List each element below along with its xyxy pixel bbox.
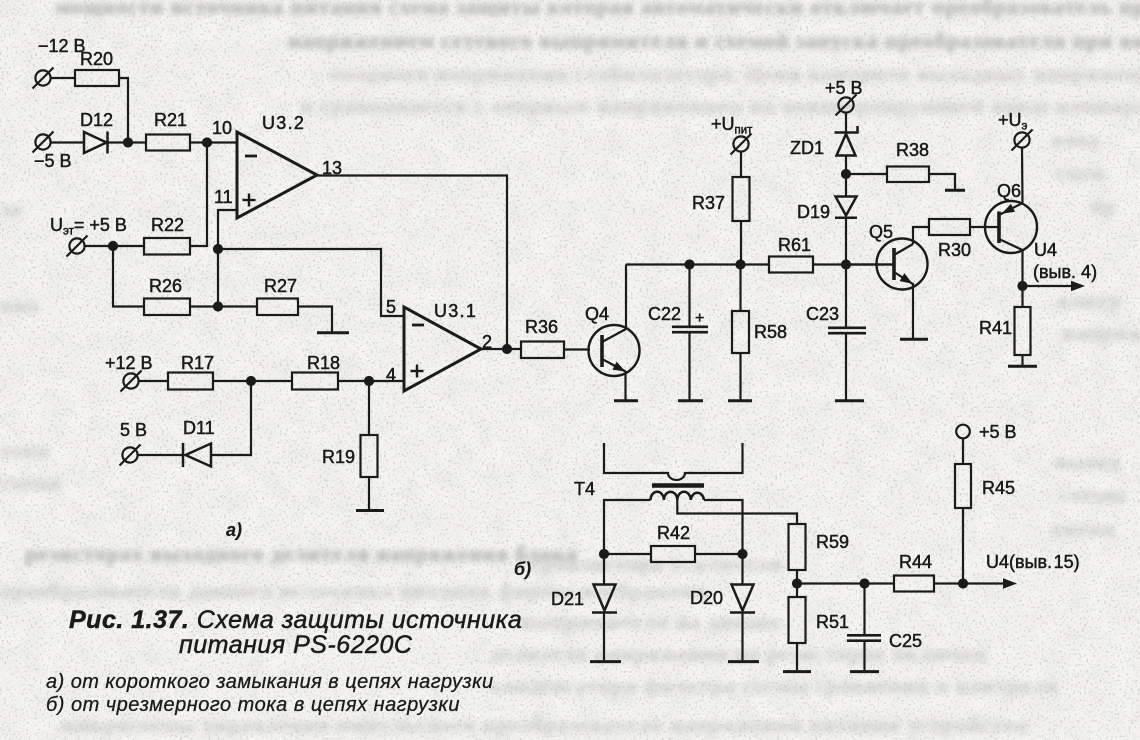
ground Q5 — [900, 338, 928, 341]
svg-text:R20: R20 — [80, 49, 113, 69]
diode D20 — [730, 585, 755, 613]
svg-text:R22: R22 — [151, 215, 184, 235]
svg-text:ZD1: ZD1 — [790, 138, 824, 158]
wire — [739, 353, 741, 400]
svg-text:а) от короткого замыкания в це: а) от короткого замыкания в цепях нагруз… — [46, 671, 494, 693]
ground D20 — [728, 660, 759, 663]
svg-text:б): б) — [514, 559, 531, 579]
terminal -12 В — [33, 68, 54, 89]
ground C23 — [835, 399, 864, 402]
node junction D19/R61 — [842, 261, 850, 269]
svg-text:(выв. 4): (выв. 4) — [1033, 262, 1097, 282]
svg-text:11: 11 — [214, 187, 233, 207]
resistor R27 — [257, 299, 298, 316]
terminal -5 В — [33, 132, 54, 153]
node junction R45/R44 — [959, 580, 967, 588]
wire secondary left lead — [604, 500, 651, 584]
wire — [1021, 147, 1024, 203]
svg-text:R44: R44 — [899, 552, 932, 572]
transformer T4 core — [652, 483, 704, 488]
resistor R30 — [929, 219, 970, 235]
wire — [929, 174, 955, 189]
node junction R17/D11 — [247, 377, 255, 385]
ground R51 — [783, 670, 811, 673]
resistor R17 — [168, 373, 213, 390]
wire Q6 collector down — [1021, 249, 1023, 307]
svg-text:R61: R61 — [778, 235, 811, 255]
wire — [934, 582, 963, 584]
svg-text:U3.2: U3.2 — [262, 113, 305, 133]
terminal +5 В bottom — [956, 425, 970, 439]
svg-text:R37: R37 — [692, 193, 725, 213]
wire U3.1 output — [481, 348, 521, 350]
resistor R51 — [789, 597, 806, 643]
node junction C22 — [686, 261, 694, 269]
wire — [970, 226, 999, 228]
wire — [797, 582, 894, 584]
wire rail left — [626, 263, 769, 265]
resistor R18 — [292, 373, 338, 390]
svg-text:2: 2 — [482, 332, 492, 352]
svg-text:R26: R26 — [149, 276, 182, 296]
wire — [368, 477, 370, 509]
transistor Q6 — [985, 201, 1037, 253]
wire — [962, 508, 964, 584]
node junction ZD1/D19/R38 — [842, 170, 850, 178]
op-amp U3.1 — [404, 307, 481, 391]
svg-text:D21: D21 — [551, 589, 584, 609]
op-amp U3.2 — [237, 132, 317, 218]
ground R41 — [1008, 365, 1037, 368]
node junction Uэт — [109, 242, 117, 250]
svg-text:C23: C23 — [806, 304, 839, 324]
wire — [564, 348, 590, 350]
svg-text:R21: R21 — [154, 110, 187, 130]
wire — [298, 307, 332, 332]
svg-text:питания PS-6220C: питания PS-6220C — [179, 631, 413, 659]
resistor R58 — [732, 311, 749, 353]
wire feedback to R22 — [190, 143, 207, 247]
wire — [845, 156, 847, 197]
resistor R36 — [521, 342, 564, 359]
wire — [1021, 355, 1023, 365]
wire — [845, 218, 847, 265]
resistor R19 — [361, 435, 378, 477]
wire — [796, 570, 798, 597]
resistor R59 — [789, 524, 806, 570]
diode D12 — [84, 132, 108, 154]
wire R19 top — [368, 381, 370, 435]
node junction D12/R20 — [124, 139, 132, 147]
capacitor C25 — [847, 584, 881, 671]
ground Q4 — [614, 399, 638, 402]
svg-text:D19: D19 — [797, 202, 830, 222]
svg-text:а): а) — [226, 520, 242, 540]
wire — [604, 553, 651, 555]
wire arrow to U4 pin 15 — [963, 582, 1006, 584]
svg-text:R27: R27 — [264, 276, 297, 296]
svg-text:R41: R41 — [979, 318, 1012, 338]
wire — [50, 77, 75, 79]
svg-text:R18: R18 — [307, 353, 340, 373]
svg-text:+5 В: +5 В — [979, 422, 1017, 442]
ground D21 — [590, 660, 621, 663]
svg-text:R58: R58 — [754, 322, 787, 342]
svg-text:−5 В: −5 В — [34, 151, 72, 171]
svg-text:R59: R59 — [816, 532, 849, 552]
wire — [190, 141, 237, 143]
node junction C25 — [861, 580, 869, 588]
svg-text:C22: C22 — [648, 304, 681, 324]
transformer T4 secondary — [651, 492, 705, 500]
node junction R42 right — [739, 550, 747, 558]
diode D19 — [835, 197, 857, 218]
wire U3.2 output — [317, 176, 507, 350]
ground R38 — [945, 189, 965, 192]
svg-text:Uэт= +5 В: Uэт= +5 В — [50, 215, 127, 238]
ground R58 — [728, 399, 752, 402]
svg-text:Q5: Q5 — [869, 222, 893, 242]
wire to R38 — [846, 173, 887, 175]
transformer T4 primary — [604, 443, 743, 480]
wire — [119, 78, 128, 143]
node junction pin11/pin5 — [214, 245, 222, 253]
node junction output — [503, 345, 511, 353]
svg-text:5: 5 — [386, 297, 396, 317]
resistor R22 — [144, 238, 190, 255]
terminal +Uэ — [1012, 130, 1033, 151]
svg-text:−12 В: −12 В — [38, 36, 86, 56]
resistor R21 — [146, 135, 190, 151]
terminal +5 В top — [836, 95, 857, 116]
resistor R26 — [144, 299, 190, 316]
wire — [739, 265, 741, 312]
svg-text:Q6: Q6 — [997, 181, 1021, 201]
wire — [108, 141, 147, 143]
capacitor C23 — [828, 265, 866, 400]
node junction R59/R51 — [793, 580, 801, 588]
svg-text:Q4: Q4 — [585, 304, 609, 324]
svg-text:D12: D12 — [80, 110, 113, 130]
node junction pin10 — [203, 139, 211, 147]
wire — [845, 112, 847, 132]
wire Q5 emitter — [912, 283, 914, 338]
transistor Q4 — [589, 325, 640, 376]
zener ZD1 — [835, 126, 858, 156]
diode D21 — [592, 585, 617, 613]
resistor R20 — [75, 70, 119, 86]
node junction R58 — [737, 261, 745, 269]
wire — [741, 613, 743, 661]
resistor R41 — [1015, 307, 1031, 355]
resistor R37 — [733, 177, 750, 221]
transistor Q5 — [877, 239, 928, 290]
resistor R42 — [651, 546, 695, 562]
resistor R38 — [887, 167, 929, 183]
wire — [740, 221, 742, 265]
svg-text:T4: T4 — [574, 479, 595, 499]
svg-text:+: + — [695, 310, 704, 327]
svg-text:R19: R19 — [322, 447, 355, 467]
node junction R26/R27 — [214, 303, 222, 311]
svg-text:U4(выв. 15): U4(выв. 15) — [986, 552, 1080, 572]
ground C22 — [678, 399, 703, 402]
svg-text:C25: C25 — [889, 631, 922, 651]
terminal +12 В — [121, 371, 142, 392]
svg-text:U3.1: U3.1 — [434, 301, 477, 321]
svg-text:U4: U4 — [1034, 240, 1057, 260]
wire Uэт to R26 — [113, 246, 144, 307]
wire — [695, 553, 743, 555]
ground R27 — [317, 331, 349, 334]
capacitor C22 — [672, 265, 708, 400]
wire — [190, 305, 257, 307]
svg-text:R45: R45 — [982, 478, 1015, 498]
wire Q4 collector — [625, 265, 627, 330]
wire secondary right lead — [704, 500, 743, 584]
wire — [796, 643, 798, 670]
terminal Uэт — [67, 236, 88, 257]
wire — [740, 151, 742, 177]
wire Q5 collector — [913, 227, 929, 244]
svg-text:R38: R38 — [896, 140, 929, 160]
svg-text:10: 10 — [212, 118, 232, 138]
wire — [137, 454, 183, 456]
wire — [138, 380, 168, 382]
wire pin11 net — [218, 210, 237, 307]
wire center tap — [677, 500, 797, 524]
ground C25 — [850, 670, 879, 673]
node junction U4 pin4 — [1019, 282, 1027, 290]
svg-text:+12 В: +12 В — [105, 353, 153, 373]
node junction R42 left — [600, 550, 608, 558]
wire rail to Q5 base — [846, 263, 894, 265]
svg-text:R36: R36 — [525, 317, 558, 337]
svg-text:4: 4 — [386, 365, 396, 385]
terminal +Uпит — [731, 134, 752, 155]
svg-text:5 В: 5 В — [120, 420, 147, 440]
wire — [962, 438, 964, 464]
svg-text:R42: R42 — [657, 523, 690, 543]
wire rail right — [813, 263, 894, 265]
diode D11 — [183, 443, 211, 467]
resistor R61 — [769, 257, 813, 273]
svg-text:R30: R30 — [938, 240, 971, 260]
svg-text:D11: D11 — [183, 418, 215, 438]
svg-text:D20: D20 — [690, 588, 723, 608]
svg-text:+5 В: +5 В — [825, 78, 863, 98]
svg-text:б) от чрезмерного тока в цепях: б) от чрезмерного тока в цепях нагрузки — [46, 694, 460, 716]
ground R19 — [356, 509, 384, 512]
wire — [50, 141, 84, 143]
resistor R45 — [955, 464, 971, 508]
node junction R18/R19 — [365, 377, 373, 385]
wire arrow to U4 pin 4 — [1023, 285, 1075, 287]
wire — [338, 380, 404, 382]
wire — [213, 380, 292, 382]
resistor R44 — [894, 576, 934, 592]
svg-text:13: 13 — [322, 158, 342, 178]
wire Q4 emitter — [624, 371, 626, 400]
wire — [603, 613, 605, 661]
wire — [84, 245, 144, 247]
svg-text:Рис. 1.37. Схема защиты источн: Рис. 1.37. Схема защиты источника — [69, 606, 522, 634]
svg-text:R51: R51 — [816, 612, 849, 632]
svg-text:R17: R17 — [181, 353, 214, 373]
wire — [211, 381, 251, 455]
wire to U3.1 pin 5 — [218, 249, 404, 316]
terminal 5 В — [120, 445, 141, 466]
